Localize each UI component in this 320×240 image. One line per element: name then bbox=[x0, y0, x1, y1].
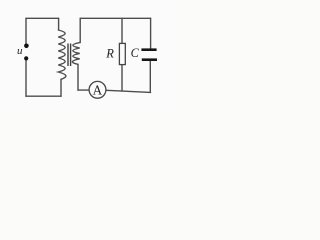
wire: secondary top rail bbox=[80, 17, 150, 19]
wire: bottom lead to ammeter bbox=[78, 89, 89, 91]
wire: secondary coil top lead bbox=[79, 18, 81, 42]
wire: bottom rail ammeter to capacitor bbox=[106, 90, 151, 92]
svg-text:C: C bbox=[131, 46, 140, 60]
svg-text:A: A bbox=[93, 83, 103, 98]
wire: primary coil top lead bbox=[58, 18, 60, 30]
wire: secondary coil bottom lead bbox=[77, 64, 79, 90]
wire: resistor branch bottom bbox=[121, 65, 123, 92]
inductor L2 secondary winding bbox=[72, 43, 79, 65]
transformer core line left bbox=[67, 44, 69, 67]
capacitor C bottom plate bbox=[142, 58, 157, 61]
wire: primary loop top bbox=[26, 17, 59, 19]
wire: primary loop bottom bbox=[26, 95, 61, 97]
wire: resistor branch top bbox=[121, 18, 123, 43]
wire: capacitor branch lower bbox=[149, 61, 151, 92]
svg-text:R: R bbox=[105, 46, 114, 60]
inductor L1 primary winding bbox=[58, 30, 66, 79]
transformer core line right bbox=[70, 44, 72, 67]
wire: capacitor branch upper bbox=[150, 18, 152, 49]
resistor R box bbox=[119, 43, 125, 64]
wire: primary coil bottom lead bbox=[60, 79, 62, 96]
terminal dot upper bbox=[24, 44, 29, 49]
svg-text:u: u bbox=[17, 45, 23, 57]
capacitor C top plate bbox=[141, 48, 156, 51]
terminal dot lower bbox=[24, 56, 28, 60]
ammeter A circle bbox=[89, 81, 106, 98]
wire: primary loop left upper bbox=[25, 18, 27, 43]
wire: primary loop left lower bbox=[25, 60, 27, 96]
